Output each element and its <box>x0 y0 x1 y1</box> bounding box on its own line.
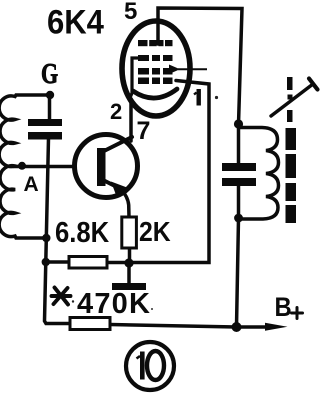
svg-text:5: 5 <box>124 0 137 25</box>
svg-text:6.8K: 6.8K <box>55 216 110 249</box>
svg-text:7: 7 <box>137 117 151 145</box>
svg-text:B: B <box>275 293 292 322</box>
svg-text:2K: 2K <box>139 216 171 248</box>
svg-text:6K4: 6K4 <box>47 2 105 41</box>
svg-text:A: A <box>24 173 39 196</box>
svg-text:G: G <box>41 57 58 90</box>
svg-text:470K: 470K <box>77 288 151 320</box>
svg-text:2: 2 <box>110 99 122 124</box>
